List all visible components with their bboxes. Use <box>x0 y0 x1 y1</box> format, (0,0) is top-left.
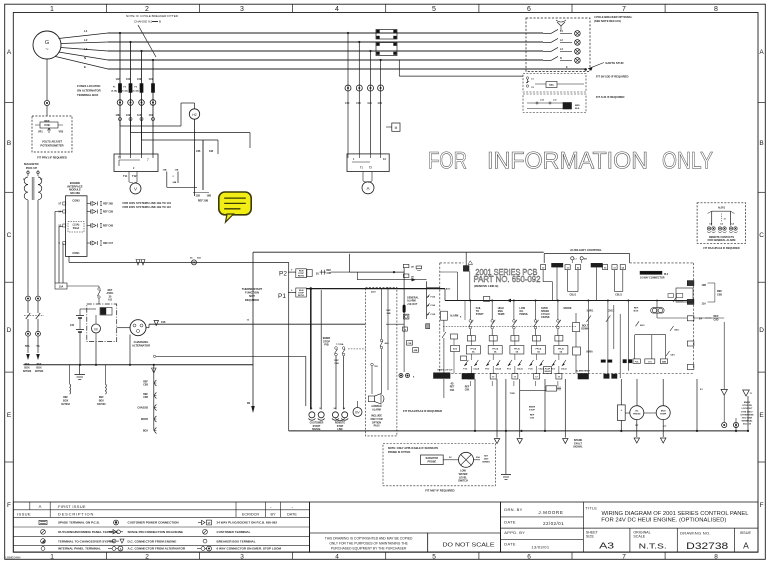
svg-text:24B: 24B <box>173 181 177 184</box>
svg-text:FOR GENERAL ALARM: FOR GENERAL ALARM <box>708 239 736 242</box>
svg-text:FIT AUX IF REQUIRED: FIT AUX IF REQUIRED <box>596 95 624 99</box>
svg-text:FIT 5HY.DD IF REQUIRED: FIT 5HY.DD IF REQUIRED <box>596 75 628 79</box>
svg-text:AUXILIARY CONTROL: AUXILIARY CONTROL <box>570 248 602 252</box>
svg-text:PRESS: PRESS <box>633 414 641 416</box>
svg-text:FIT M07 IF REQUIRED: FIT M07 IF REQUIRED <box>425 489 454 493</box>
svg-text:RESET +VE OUT: RESET +VE OUT <box>438 370 454 372</box>
svg-text:TERMINAL BOX: TERMINAL BOX <box>77 93 98 97</box>
svg-text:G: G <box>45 40 49 46</box>
svg-text:102: 102 <box>137 77 142 81</box>
svg-text:BRD: BRD <box>575 105 580 107</box>
svg-text:FFL/A: FFL/A <box>558 347 564 350</box>
svg-text:TEMP: TEMP <box>660 414 667 416</box>
svg-text:~: ~ <box>45 47 48 53</box>
svg-text:CY1: CY1 <box>648 361 652 363</box>
svg-text:KITS ONLY: KITS ONLY <box>741 411 753 413</box>
svg-text:FIT PRV1 IF REQUIRED: FIT PRV1 IF REQUIRED <box>37 156 67 160</box>
svg-text:PL2: PL2 <box>664 274 669 276</box>
svg-text:ONLY FOR THE PURPOSES OF MAINT: ONLY FOR THE PURPOSES OF MAINTAINING THE <box>329 541 408 545</box>
svg-text:7: 7 <box>622 6 626 13</box>
svg-text:FLAP: FLAP <box>545 368 551 371</box>
svg-text:A: A <box>7 49 12 56</box>
svg-text:CBL/1: CBL/1 <box>615 295 622 297</box>
svg-text:CON1: CON1 <box>72 251 80 255</box>
svg-text:BLK: BLK <box>575 108 580 110</box>
svg-text:+: + <box>291 288 293 292</box>
svg-text:ALR/1: ALR/1 <box>718 207 726 210</box>
svg-text:5A: 5A <box>37 345 40 348</box>
svg-text:THERMOSTART: THERMOSTART <box>242 287 263 291</box>
svg-text:C20: C20 <box>368 102 373 105</box>
svg-text:M: M <box>94 328 97 332</box>
svg-text:SIZE: SIZE <box>586 534 595 538</box>
svg-text:EMER: EMER <box>744 402 751 404</box>
svg-text:EMER: EMER <box>529 407 536 409</box>
svg-text:DRN. BY: DRN. BY <box>504 507 522 512</box>
svg-text:13/03/01: 13/03/01 <box>531 545 549 550</box>
svg-text:P/B: P/B <box>324 343 328 347</box>
svg-text:REF: REF <box>465 387 470 389</box>
svg-text:D.C. CONNECTOR FROM ENGINE: D.C. CONNECTOR FROM ENGINE <box>128 539 177 543</box>
svg-text:6 WAY CONNECTOR ON EMER. STOP: 6 WAY CONNECTOR ON EMER. STOP LOOM <box>217 547 282 551</box>
svg-text:(6.3A): (6.3A) <box>111 90 117 93</box>
svg-text:C0B: C0B <box>334 363 339 365</box>
svg-text:10B: 10B <box>702 284 707 287</box>
svg-text:PROBE: PROBE <box>428 460 437 463</box>
svg-text:CBL/1: CBL/1 <box>569 295 576 297</box>
svg-text:N: N <box>84 56 86 60</box>
svg-text:CHANGE N1: CHANGE N1 <box>134 20 152 24</box>
svg-text:ALTERNATOR: ALTERNATOR <box>132 343 150 347</box>
svg-text:REF: REF <box>326 270 331 272</box>
svg-text:REF C4B: REF C4B <box>103 225 114 228</box>
svg-text:PART NO. 650-092: PART NO. 650-092 <box>474 275 542 284</box>
svg-text:C0B: C0B <box>326 273 331 275</box>
svg-text:E: E <box>759 412 764 419</box>
svg-text:POTENTIOMETER: POTENTIOMETER <box>40 144 63 148</box>
svg-text:FUSES LOCATED: FUSES LOCATED <box>77 84 100 88</box>
svg-text:110: 110 <box>137 113 142 117</box>
svg-text:H2: H2 <box>192 113 196 117</box>
svg-text:CRANK: CRANK <box>541 316 550 319</box>
svg-text:22/02/01: 22/02/01 <box>543 521 564 526</box>
svg-text:FIT PAA1/PAA3 IF REQUIRED: FIT PAA1/PAA3 IF REQUIRED <box>403 409 442 413</box>
svg-text:L7: L7 <box>575 258 577 260</box>
svg-text:50mA: 50mA <box>73 227 80 230</box>
svg-text:10A: 10A <box>116 77 121 81</box>
svg-text:A.C. CONNECTOR FROM ALTERNATOR: A.C. CONNECTOR FROM ALTERNATOR <box>128 547 186 551</box>
svg-text:VDO LINK: VDO LINK <box>742 418 753 420</box>
svg-text:REF: REF <box>44 119 50 123</box>
svg-text:TITLE: TITLE <box>585 506 597 510</box>
svg-text:F: F <box>760 502 764 509</box>
svg-text:VALVE: VALVE <box>544 370 551 373</box>
svg-text:CY1/1: CY1/1 <box>678 301 684 303</box>
svg-text:LOCKOUT: LOCKOUT <box>742 408 753 410</box>
svg-text:4D: 4D <box>451 383 454 386</box>
svg-text:DO NOT SCALE: DO NOT SCALE <box>443 543 496 549</box>
svg-text:FFL/A: FFL/A <box>514 347 520 350</box>
svg-text:24 WAY PLUG/SOCKET ON P.C.B. 6: 24 WAY PLUG/SOCKET ON P.C.B. 650-092 <box>217 521 278 525</box>
svg-text:CHASSIS: CHASSIS <box>137 407 148 410</box>
svg-text:A1/2: A1/2 <box>453 348 457 351</box>
svg-text:101: 101 <box>149 113 154 117</box>
svg-text:ECR/DCR: ECR/DCR <box>242 513 260 517</box>
svg-text:10B: 10B <box>207 195 212 198</box>
svg-text:REF: REF <box>386 310 391 312</box>
svg-text:C0K: C0K <box>465 390 470 392</box>
svg-text:6: 6 <box>527 6 531 13</box>
svg-text:PICK UP: PICK UP <box>26 166 37 170</box>
svg-text:CUSTOMER TERMINAL: CUSTOMER TERMINAL <box>217 530 251 534</box>
svg-text:11B: 11B <box>196 195 201 198</box>
svg-text:FIRST ISSUE: FIRST ISSUE <box>58 504 86 509</box>
svg-text:C6L/A: C6L/A <box>473 368 479 371</box>
svg-text:A5/1: A5/1 <box>446 287 451 290</box>
svg-text:RET: RET <box>450 387 455 389</box>
svg-text:STOP PB: STOP PB <box>742 405 752 407</box>
svg-text:C: C <box>759 232 764 239</box>
svg-text:SWITCH: SWITCH <box>458 480 468 483</box>
svg-text:D: D <box>759 327 764 334</box>
svg-text:103: 103 <box>126 77 131 81</box>
svg-text:11B: 11B <box>209 150 214 153</box>
svg-text:11A: 11A <box>702 303 707 306</box>
svg-text:(6.3A): (6.3A) <box>122 90 128 93</box>
svg-text:24V: 24V <box>70 324 75 327</box>
svg-text:BREAKER BOX TERMINAL: BREAKER BOX TERMINAL <box>217 539 256 543</box>
svg-text:SPADE TERMINAL ON P.C.B.: SPADE TERMINAL ON P.C.B. <box>58 521 100 525</box>
svg-text:VOLTS ADJUST: VOLTS ADJUST <box>42 140 63 144</box>
svg-text:F1/1: F1/1 <box>635 361 639 363</box>
svg-text:7: 7 <box>622 554 626 561</box>
svg-text:B: B <box>159 20 161 24</box>
svg-text:630-089: 630-089 <box>70 191 80 195</box>
svg-text:SCALE: SCALE <box>633 534 645 538</box>
svg-text:1: 1 <box>50 6 54 13</box>
svg-text:NOT: NOT <box>249 294 255 298</box>
svg-text:A5/3: A5/3 <box>371 291 376 294</box>
svg-text:F1/A: F1/A <box>431 313 436 316</box>
svg-text:CUSTOMER POWER CONNECTION: CUSTOMER POWER CONNECTION <box>128 521 179 525</box>
svg-text:ONLY: ONLY <box>662 148 713 175</box>
svg-text:D27633: D27633 <box>35 370 44 373</box>
svg-text:FUNCTION: FUNCTION <box>245 291 259 295</box>
svg-text:D27633: D27633 <box>23 370 32 373</box>
svg-text:DOWN: DOWN <box>581 328 589 331</box>
svg-text:THIS DRAWING IS COPYRIGHTED AN: THIS DRAWING IS COPYRIGHTED AND MAY BE C… <box>325 536 413 540</box>
svg-text:ISSUE: ISSUE <box>17 512 31 517</box>
svg-text:PROBE IS FITTED.: PROBE IS FITTED. <box>388 450 411 454</box>
svg-text:L2: L2 <box>84 38 88 42</box>
svg-text:SIGNAL: SIGNAL <box>573 446 583 449</box>
svg-text:DRAWING NO.: DRAWING NO. <box>680 530 711 535</box>
svg-text:5: 5 <box>432 6 436 13</box>
svg-text:N: N <box>560 57 562 60</box>
svg-text:C90: C90 <box>378 102 383 105</box>
svg-text:5MB: 5MB <box>662 361 667 363</box>
svg-text:E: E <box>84 65 86 69</box>
svg-text:TEMP.: TEMP. <box>498 313 505 316</box>
svg-text:FFL/A: FFL/A <box>492 347 498 350</box>
svg-text:C0B: C0B <box>143 396 148 399</box>
svg-text:SERIES: SERIES <box>482 462 490 464</box>
svg-text:75H: 75H <box>374 366 378 368</box>
svg-text:START: START <box>476 313 484 316</box>
svg-text:(SEE NOTE REF.A01): (SEE NOTE REF.A01) <box>594 19 621 23</box>
svg-text:F: F <box>7 502 11 509</box>
svg-text:7: 7 <box>147 158 149 162</box>
svg-text:F1/A: F1/A <box>431 304 436 307</box>
svg-text:J.MOORE: J.MOORE <box>538 510 563 515</box>
svg-text:REF: REF <box>334 360 339 362</box>
svg-text:20B: 20B <box>386 313 390 315</box>
svg-text:+: + <box>291 268 293 272</box>
svg-text:C6L/A: C6L/A <box>539 368 545 371</box>
svg-text:D27633: D27633 <box>61 403 70 406</box>
svg-text:B: B <box>759 140 763 147</box>
svg-text:LBB/E/34/04: LBB/E/34/04 <box>6 555 22 559</box>
svg-text:F1/A: F1/A <box>431 295 436 298</box>
svg-text:4: 4 <box>335 6 339 13</box>
svg-text:C0B: C0B <box>143 384 148 387</box>
svg-text:FFL/A: FFL/A <box>536 347 542 350</box>
svg-text:BOX: BOX <box>634 311 639 313</box>
svg-text:C0B: C0B <box>717 293 722 296</box>
svg-text:V: V <box>134 187 137 192</box>
svg-text:5: 5 <box>432 554 436 561</box>
svg-text:VR3: VR3 <box>59 131 64 134</box>
svg-text:30.: 30. <box>316 272 320 275</box>
svg-text:ALARM: ALARM <box>450 314 458 317</box>
svg-text:VR1: VR1 <box>38 131 43 134</box>
svg-text:ON ALTERNATOR: ON ALTERNATOR <box>77 89 101 93</box>
svg-text:15A: 15A <box>59 286 64 289</box>
svg-text:7-7/15A: 7-7/15A <box>336 343 344 346</box>
svg-text:INTERNAL PANEL TERMINAL: INTERNAL PANEL TERMINAL <box>58 547 101 551</box>
svg-text:APPD. BY: APPD. BY <box>504 530 525 535</box>
svg-text:T12B: T12B <box>510 393 516 395</box>
svg-text:FFL/A: FFL/A <box>470 347 476 350</box>
svg-text:5UR/1: 5UR/1 <box>587 310 594 313</box>
svg-text:DM: DM <box>584 258 587 260</box>
svg-text:C0D: C0D <box>713 318 718 321</box>
svg-text:B: B <box>7 140 11 147</box>
svg-text:C6L/A: C6L/A <box>495 368 501 371</box>
svg-text:C: C <box>7 232 12 239</box>
svg-text:DOOR: DOOR <box>141 418 148 421</box>
svg-text:N.T.S.: N.T.S. <box>639 542 667 551</box>
svg-text:5T1: 5T1 <box>549 83 554 87</box>
svg-text:4 POLE BREAKER OPTIONAL: 4 POLE BREAKER OPTIONAL <box>594 15 633 19</box>
svg-text:+: + <box>620 408 622 412</box>
svg-text:C3B: C3B <box>408 343 412 345</box>
svg-text:FOR 24V DC HEUI ENGINE. (OPTIO: FOR 24V DC HEUI ENGINE. (OPTIONALISED) <box>601 518 726 524</box>
svg-text:C10: C10 <box>345 102 350 105</box>
svg-text:WIRING DIAGRAM OF 2001 SERIES: WIRING DIAGRAM OF 2001 SERIES CONTROL PA… <box>602 511 749 517</box>
svg-text:DESCRIPTION: DESCRIPTION <box>58 512 94 517</box>
svg-text:BOX: BOX <box>143 430 149 433</box>
svg-text:D: D <box>7 327 12 334</box>
svg-text:10B: 10B <box>116 113 121 117</box>
svg-text:REQUIRED: REQUIRED <box>245 298 259 302</box>
svg-text:C6L/A: C6L/A <box>517 368 523 371</box>
svg-text:M: M <box>395 126 398 130</box>
svg-text:NOTE: ONLY APPLICABLE IF SEPAR: NOTE: ONLY APPLICABLE IF SEPARATE <box>388 446 439 450</box>
svg-text:REF: REF <box>530 415 535 417</box>
svg-text:C30: C30 <box>356 102 361 105</box>
svg-text:FIT PAA1/PAA3 IF REQUIRED: FIT PAA1/PAA3 IF REQUIRED <box>703 246 739 250</box>
svg-text:3: 3 <box>240 554 244 561</box>
svg-text:NOTE: IF 4 POLE BREAKER FITTE: NOTE: IF 4 POLE BREAKER FITTED <box>126 14 179 18</box>
svg-text:10B: 10B <box>163 170 167 172</box>
svg-text:6: 6 <box>527 554 531 561</box>
svg-text:REF C3B: REF C3B <box>103 211 114 214</box>
svg-text:+VE OUT: +VE OUT <box>407 303 418 306</box>
svg-text:ALARM RESET: ALARM RESET <box>576 370 590 373</box>
svg-text:FOR 400V SYSTEMS LINK 11B TO 1: FOR 400V SYSTEMS LINK 11B TO 101 <box>123 201 172 205</box>
svg-text:D27633: D27633 <box>97 403 106 406</box>
svg-text:663-019: 663-019 <box>743 424 752 426</box>
svg-text:INFORMATION: INFORMATION <box>487 148 648 175</box>
svg-text:PRESS.: PRESS. <box>519 313 528 316</box>
svg-text:PURCHASED EQUIPMENT BY THE PUR: PURCHASED EQUIPMENT BY THE PURCHASER <box>331 547 407 551</box>
svg-text:C0K: C0K <box>530 418 535 420</box>
svg-text:A: A <box>120 547 122 551</box>
svg-text:1: 1 <box>50 554 54 561</box>
svg-text:P2: P2 <box>279 270 287 277</box>
svg-text:C0B: C0B <box>44 123 49 127</box>
svg-text:50A: 50A <box>476 456 480 459</box>
svg-text:DATE: DATE <box>504 542 516 547</box>
svg-text:ALARM: ALARM <box>372 408 381 411</box>
svg-text:A: A <box>39 504 42 509</box>
svg-text:EARTH STUD: EARTH STUD <box>606 61 624 65</box>
svg-text:REF C07: REF C07 <box>103 242 114 245</box>
svg-text:8: 8 <box>714 6 718 13</box>
svg-text:PA10: PA10 <box>374 425 380 428</box>
svg-text:L1: L1 <box>84 29 88 33</box>
svg-text:16 WAY CONNECTOR: 16 WAY CONNECTOR <box>640 277 665 280</box>
svg-text:TERMINAL TO CHANGEOVER SYSTEM: TERMINAL TO CHANGEOVER SYSTEM <box>58 539 115 543</box>
svg-text:L3: L3 <box>84 47 88 51</box>
svg-text:2B: 2B <box>411 276 414 278</box>
svg-text:2B: 2B <box>411 267 414 269</box>
svg-text:FOR: FOR <box>428 148 467 175</box>
svg-text:P1: P1 <box>278 293 286 300</box>
svg-text:E: E <box>7 412 12 419</box>
svg-text:11B: 11B <box>175 170 179 172</box>
svg-text:OTHERWISE: OTHERWISE <box>740 414 754 416</box>
svg-text:RETIG: RETIG <box>298 276 305 278</box>
svg-text:55A: 55A <box>25 345 30 348</box>
svg-text:BY: BY <box>270 513 276 517</box>
svg-text:CON3: CON3 <box>72 199 80 203</box>
svg-text:REF 20B: REF 20B <box>103 203 113 206</box>
svg-text:STOP: STOP <box>529 410 535 412</box>
svg-text:(6.3A): (6.3A) <box>133 90 139 93</box>
svg-text:FOR 230V SYSTEMS LINK 11B TO 1: FOR 230V SYSTEMS LINK 11B TO 110 <box>123 205 172 209</box>
svg-text:A: A <box>743 541 749 551</box>
svg-text:T12: T12 <box>132 174 137 178</box>
svg-text:A.D: A.D <box>108 299 112 302</box>
svg-text:A: A <box>759 49 764 56</box>
svg-text:SPARE: SPARE <box>563 307 571 310</box>
svg-text:DATE: DATE <box>287 513 297 517</box>
svg-text:DATE: DATE <box>504 520 516 525</box>
svg-text:3: 3 <box>240 6 244 13</box>
svg-text:CHARGING: CHARGING <box>134 340 149 344</box>
svg-text:A3: A3 <box>599 542 615 551</box>
svg-text:UM5A: UM5A <box>586 351 593 354</box>
svg-text:ISSUE: ISSUE <box>740 531 752 535</box>
svg-text:10B: 10B <box>196 150 201 153</box>
svg-text:11B: 11B <box>161 321 166 324</box>
svg-text:T11: T11 <box>123 174 128 178</box>
svg-text:SPADE PIN CONNECTION ON ENGINE: SPADE PIN CONNECTION ON ENGINE <box>128 530 183 534</box>
svg-text:TERMINAL: TERMINAL <box>741 420 753 423</box>
svg-text:10B: 10B <box>126 113 131 117</box>
svg-text:2: 2 <box>145 554 149 561</box>
svg-text:REF: REF <box>634 308 639 310</box>
svg-text:2: 2 <box>145 6 149 13</box>
svg-text:RETIG: RETIG <box>298 295 305 297</box>
svg-text:ENG: ENG <box>661 411 666 413</box>
svg-text:101: 101 <box>149 77 154 81</box>
svg-text:D32738: D32738 <box>686 541 728 551</box>
svg-text:OIL: OIL <box>635 411 639 413</box>
svg-text:REF 20B: REF 20B <box>198 200 208 203</box>
svg-text:C6L/A: C6L/A <box>561 368 567 371</box>
svg-text:8: 8 <box>714 554 718 561</box>
svg-text:C0K: C0K <box>450 390 455 392</box>
svg-text:4: 4 <box>335 554 339 561</box>
svg-text:(REMOVE LINK B): (REMOVE LINK B) <box>474 284 498 288</box>
